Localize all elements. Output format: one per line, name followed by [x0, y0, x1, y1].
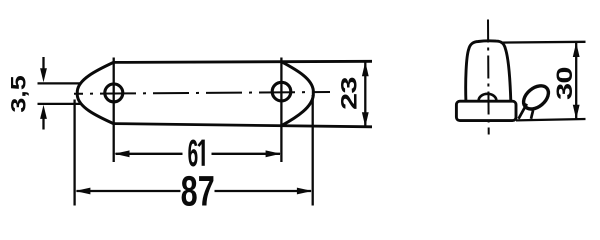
top extension line for 30 [501, 41, 586, 44]
label 3,5 (rotated) [7, 75, 31, 112]
left extension line for 87 [73, 100, 75, 206]
clip neck outer [519, 104, 527, 119]
arrowhead 87 right [297, 188, 312, 195]
body bottom edge (front view, continues as extension line for 23) [114, 124, 373, 127]
dimension 3,5 bottom arrow leader [42, 118, 44, 130]
arrowhead 87 left [75, 188, 90, 195]
dimension 3,5 top arrow leader [42, 57, 44, 69]
label 87 [181, 167, 215, 215]
label 23 (rotated) [337, 77, 362, 110]
arrowhead 61 left [114, 150, 129, 157]
arrowhead 61 right [266, 150, 281, 157]
label 30 (rotated) [552, 67, 577, 100]
arrowhead 3,5 top (points down) [40, 68, 47, 82]
left mounting hole [105, 84, 123, 102]
slot edge / extension line upper (3,5) [38, 82, 81, 84]
side view vertical centerline [487, 20, 490, 135]
bottom extension line for 30 [516, 119, 586, 120]
spring clip loop [519, 81, 553, 114]
dimension line 87 [77, 190, 312, 192]
body top edge (front view, continues as extension line for 23) [114, 61, 373, 62]
slot edge / extension line lower (3,5) [38, 103, 81, 105]
bulb bump on base [479, 94, 497, 101]
left end taper curve of bracket [77, 62, 113, 123]
arrowhead 23 top [362, 62, 369, 77]
arrowhead 30 bottom [573, 105, 580, 120]
right extension line for 87 [312, 95, 314, 206]
dimension line 61 [116, 153, 281, 155]
vertical line through left hole (extension for 61) [113, 58, 115, 163]
label 61 digit 1 [198, 140, 203, 166]
vertical line through right hole (extension for 61) [280, 58, 282, 163]
clip neck inner [531, 110, 533, 119]
arrowhead 3,5 bottom (points up) [40, 105, 47, 119]
lamp lens dome (side view) [466, 41, 511, 101]
svg-text:30: 30 [552, 67, 577, 100]
svg-text:23: 23 [337, 77, 362, 110]
arrowhead 23 bottom [362, 112, 369, 127]
dimension line 23 [364, 63, 366, 127]
svg-text:87: 87 [181, 167, 215, 210]
label 61 digit 6 [188, 133, 199, 175]
right end taper curve of bracket [281, 62, 313, 126]
lamp base (side view) [456, 101, 516, 120]
horizontal centerline through holes [74, 92, 330, 94]
dimension line 30 [575, 43, 577, 119]
arrowhead 30 top [573, 42, 580, 57]
svg-text:3,5: 3,5 [7, 75, 31, 112]
right mounting hole [272, 82, 291, 101]
